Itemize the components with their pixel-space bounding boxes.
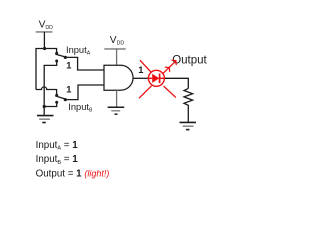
light arrow shaft [163, 61, 176, 73]
switch B bottom contact dot [55, 101, 58, 104]
svg-text:Output: Output [172, 54, 207, 66]
power VDD1 bar [36, 31, 53, 33]
switch A arm [55, 54, 66, 57]
switch B top contact dot [55, 94, 58, 97]
wire switch B bottom to ground rail [44, 102, 57, 106]
switch B pivot dot [64, 98, 67, 101]
ray top-left [140, 61, 151, 73]
power VDD1 label [39, 19, 54, 31]
caption line 1: InputA = 1 [36, 140, 79, 152]
resistor R1 [184, 88, 193, 122]
wire gate ground stub [116, 90, 118, 107]
switch A bottom contact dot [55, 60, 58, 63]
wire switch B pole to gate input B [65, 85, 104, 100]
caption line 2: InputB = 1 [36, 154, 79, 166]
ground GND1 [37, 116, 54, 123]
label value 1 (A) [66, 60, 71, 70]
wire VDD1 stub [43, 32, 45, 49]
ground GND3 (resistor) [180, 122, 197, 129]
LED light rays [139, 60, 176, 98]
label Output [172, 54, 207, 66]
wire switch A pole to gate input A [65, 57, 104, 70]
label InputB [68, 102, 93, 114]
wire to ground 1 [43, 107, 45, 116]
wire VDD horizontal [36, 49, 57, 90]
label InputA [66, 45, 91, 57]
label value 1 (B) [66, 85, 71, 95]
light arrow head 1 [165, 67, 169, 71]
wire gate output to LED [133, 77, 148, 79]
label value 1 (output) [138, 65, 143, 75]
ray bottom-right [164, 86, 176, 97]
power VDD2 label [110, 35, 125, 47]
switch A pivot dot [64, 56, 67, 59]
LED D1 [148, 70, 164, 86]
svg-text:InputA = 1: InputA = 1 [36, 140, 79, 152]
power VDD2 bar [104, 48, 125, 50]
light arrow head 2 [172, 60, 176, 64]
switch A top contact dot [55, 52, 58, 55]
svg-text:1: 1 [138, 65, 143, 75]
caption line 3: Output = 1 (light!) [36, 168, 110, 179]
svg-text:1: 1 [66, 85, 71, 95]
wire switch A bottom to ground rail [44, 61, 57, 107]
svg-text:1: 1 [66, 60, 71, 70]
ray bottom-left [139, 86, 151, 98]
wire VDD2 stub to gate [116, 49, 118, 65]
node ground junction dot [43, 105, 46, 108]
ground GND2 (gate) [108, 107, 125, 114]
switch B arm [55, 96, 66, 99]
svg-text:InputB = 1: InputB = 1 [36, 154, 79, 166]
node VDD junction dot [43, 47, 46, 50]
and-gate U1 [104, 65, 133, 90]
svg-text:Output = 1 (light!): Output = 1 (light!) [36, 168, 110, 179]
wire VDD branch to switch B with hop [36, 87, 57, 95]
wire LED to resistor corner [164, 78, 188, 88]
